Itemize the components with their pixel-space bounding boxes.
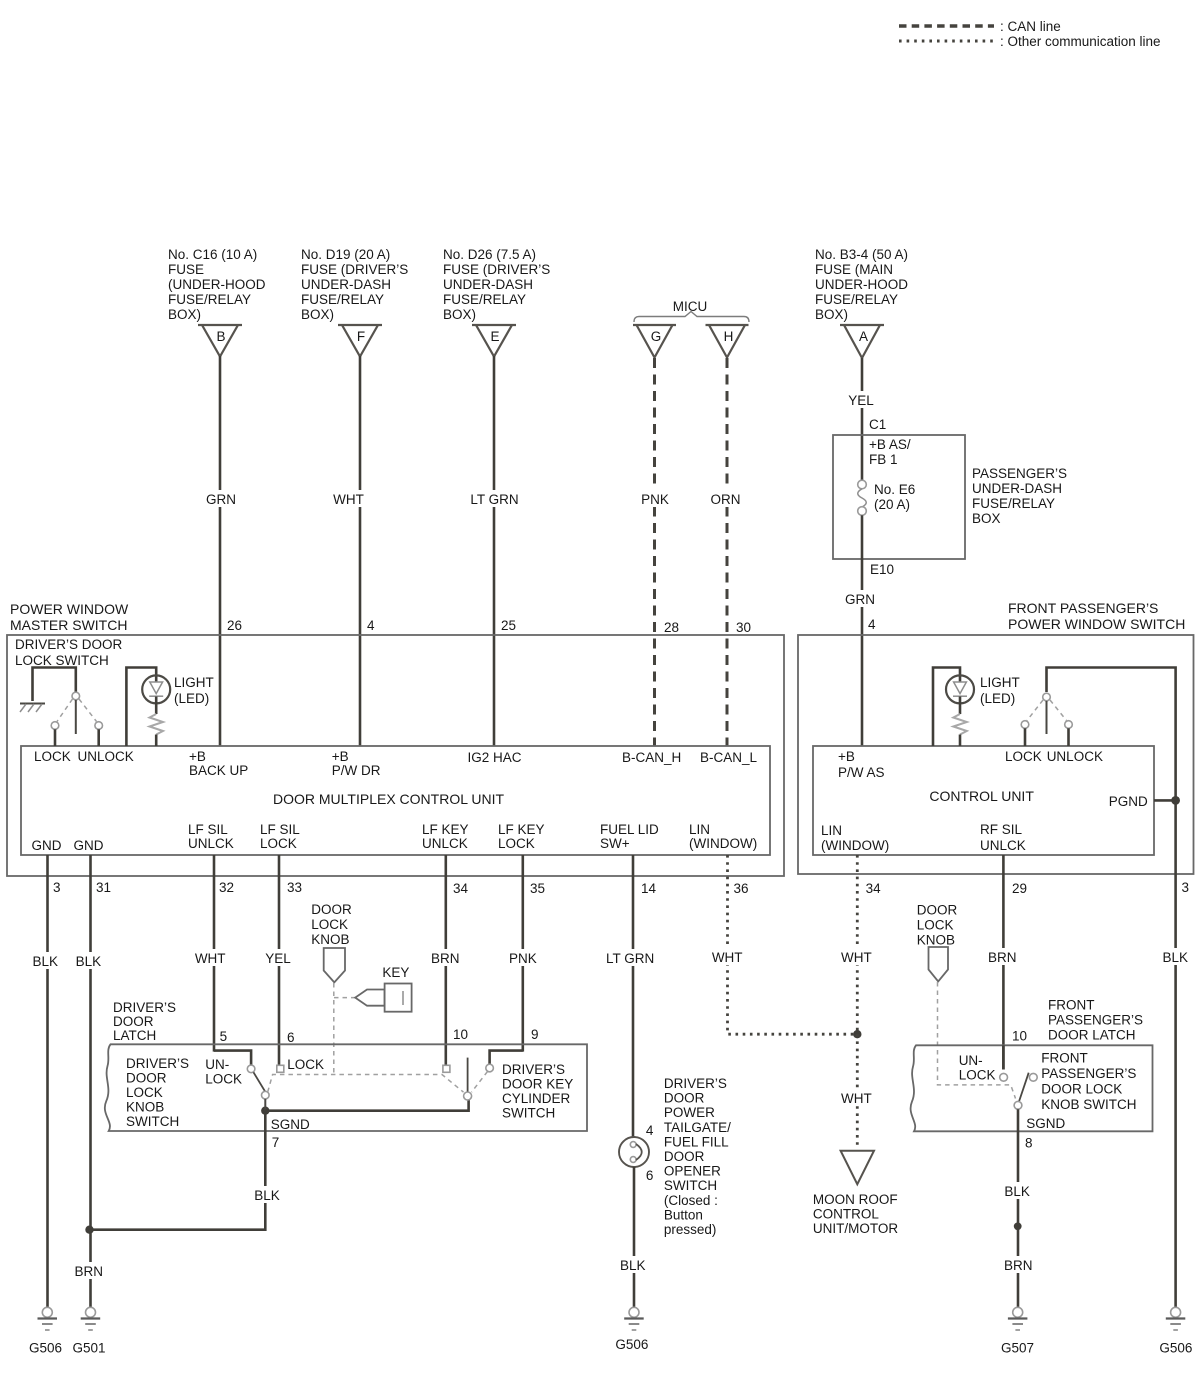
svg-text:KNOB: KNOB bbox=[126, 1100, 164, 1115]
svg-text:LF SIL: LF SIL bbox=[188, 822, 228, 837]
svg-text:FUSE/RELAY: FUSE/RELAY bbox=[443, 292, 526, 307]
contact key circle bbox=[486, 1064, 494, 1072]
svg-text:DOOR KEY: DOOR KEY bbox=[502, 1077, 573, 1092]
svg-text:PNK: PNK bbox=[641, 492, 669, 507]
wire GRN E10 to pin 4 bbox=[861, 559, 864, 746]
svg-text:LIGHT: LIGHT bbox=[980, 675, 1020, 690]
switch pole bbox=[75, 700, 77, 734]
front passenger's door lock knob switch label bbox=[1041, 1051, 1136, 1113]
svg-text:F: F bbox=[357, 329, 365, 344]
contact LOCK bbox=[51, 722, 59, 730]
svg-text:LIN: LIN bbox=[689, 822, 710, 837]
svg-text:Button: Button bbox=[664, 1207, 703, 1222]
svg-text:UNLCK: UNLCK bbox=[980, 838, 1026, 853]
label BLK SGND wire bbox=[250, 1186, 284, 1203]
svg-text:LIGHT: LIGHT bbox=[174, 675, 214, 690]
LIGHT (LED) label bbox=[174, 675, 214, 706]
junction PGND bbox=[1171, 796, 1180, 805]
connector E bbox=[472, 325, 516, 357]
svg-text:LF KEY: LF KEY bbox=[422, 822, 469, 837]
svg-text:LIN: LIN bbox=[821, 823, 842, 838]
svg-text:MASTER SWITCH: MASTER SWITCH bbox=[10, 617, 127, 633]
chassis ground bbox=[20, 704, 45, 713]
wire pivot to SGND dot bbox=[264, 1099, 266, 1111]
svg-text:WHT: WHT bbox=[841, 950, 872, 965]
svg-text:E: E bbox=[490, 329, 499, 344]
switch right wiring to PGND rail bbox=[1047, 668, 1176, 1309]
moon roof control unit/motor label bbox=[813, 1192, 898, 1236]
svg-text:DRIVER’S DOOR: DRIVER’S DOOR bbox=[15, 637, 123, 652]
svg-text:GRN: GRN bbox=[845, 592, 875, 607]
svg-text:DRIVER’S: DRIVER’S bbox=[113, 1000, 176, 1015]
switch throw right dashed bbox=[79, 699, 97, 722]
svg-text:30: 30 bbox=[736, 620, 751, 635]
front passenger's door latch box bbox=[911, 1045, 1153, 1131]
junction LIN dot bbox=[853, 1030, 861, 1038]
svg-text:UNDER-DASH: UNDER-DASH bbox=[301, 277, 391, 292]
connector B bbox=[198, 325, 242, 357]
svg-text:6: 6 bbox=[287, 1030, 295, 1045]
svg-text:32: 32 bbox=[219, 880, 234, 895]
svg-text:FUSE/RELAY: FUSE/RELAY bbox=[168, 292, 251, 307]
svg-text:9: 9 bbox=[531, 1027, 539, 1042]
door lock knob symbol left bbox=[324, 948, 345, 982]
svg-text:BOX): BOX) bbox=[168, 307, 201, 322]
svg-text:PASSENGER’S: PASSENGER’S bbox=[1048, 1013, 1143, 1028]
wire contact LOCK to unit right bbox=[1024, 728, 1027, 746]
svg-text:(20 A): (20 A) bbox=[874, 497, 910, 512]
svg-text:No. C16 (10 A): No. C16 (10 A) bbox=[168, 247, 257, 262]
MICU bracket bbox=[634, 312, 749, 323]
svg-text:: CAN line: : CAN line bbox=[1000, 19, 1061, 34]
wire LED to resistor bbox=[155, 697, 158, 715]
svg-text:4: 4 bbox=[367, 618, 375, 633]
connector A bbox=[840, 325, 884, 358]
door lock knob symbol right bbox=[929, 947, 949, 981]
svg-text:+B: +B bbox=[332, 749, 349, 764]
knob switch dashed throw bbox=[268, 1075, 464, 1093]
svg-text:LOCK: LOCK bbox=[205, 1072, 242, 1087]
svg-text:LT GRN: LT GRN bbox=[470, 492, 518, 507]
door lock knob label right bbox=[917, 903, 958, 948]
wire YEL fuse A to fuse box bbox=[861, 358, 864, 480]
label BRN G501 wire bbox=[72, 1262, 107, 1279]
svg-text:G506: G506 bbox=[615, 1337, 648, 1352]
wire B-CAN_H dashed G to pin 28 bbox=[653, 358, 656, 746]
pin LF KEY LOCK label bbox=[498, 822, 545, 851]
svg-text:LOCK: LOCK bbox=[311, 917, 348, 932]
svg-text:SGND: SGND bbox=[1026, 1116, 1065, 1131]
pin UN-LOCK label right latch bbox=[959, 1053, 996, 1083]
pin numbers below right box bbox=[866, 880, 1189, 896]
ground G501 bbox=[81, 1307, 101, 1330]
svg-text:34: 34 bbox=[453, 881, 469, 896]
label WHT moon roof bbox=[838, 1089, 875, 1106]
svg-text:3: 3 bbox=[1182, 880, 1190, 895]
svg-text:26: 26 bbox=[227, 618, 242, 633]
wire B-CAN_L dashed H to pin 30 bbox=[726, 358, 729, 746]
junction ground dot bbox=[85, 1226, 93, 1234]
svg-text:3: 3 bbox=[53, 880, 61, 895]
knob linkage dashed left bbox=[333, 983, 335, 1075]
wire dotted to moon roof bbox=[856, 1034, 859, 1148]
resistor R2 bbox=[953, 714, 967, 735]
svg-text:KNOB: KNOB bbox=[311, 932, 349, 947]
svg-text:+B AS/: +B AS/ bbox=[869, 437, 911, 452]
label BRN G507 wire bbox=[1000, 1256, 1036, 1273]
svg-text:25: 25 bbox=[501, 618, 516, 633]
resistor R1 bbox=[150, 714, 164, 735]
fuse D26 label bbox=[443, 247, 550, 322]
contact UNLOCK right bbox=[1065, 721, 1073, 729]
svg-text:BOX): BOX) bbox=[301, 307, 334, 322]
knob linkage dashed right bbox=[938, 982, 1016, 1099]
svg-text:FUSE: FUSE bbox=[168, 262, 204, 277]
svg-text:SWITCH: SWITCH bbox=[502, 1106, 555, 1121]
svg-text:OPENER: OPENER bbox=[664, 1164, 721, 1179]
svg-text:FUSE (DRIVER’S: FUSE (DRIVER’S bbox=[443, 262, 550, 277]
svg-text:FUSE/RELAY: FUSE/RELAY bbox=[972, 496, 1055, 511]
fuse B3-4 label bbox=[815, 247, 908, 322]
svg-text:(Closed :: (Closed : bbox=[664, 1193, 718, 1208]
driver's door power tailgate/fuel fill door opener switch label bbox=[664, 1076, 731, 1237]
svg-text:FUEL LID: FUEL LID bbox=[600, 822, 659, 837]
svg-text:BACK UP: BACK UP bbox=[189, 763, 248, 778]
svg-text:LOCK: LOCK bbox=[260, 836, 297, 851]
key symbol bbox=[334, 984, 412, 1012]
svg-text:G: G bbox=[651, 329, 662, 344]
svg-text:UNDER-DASH: UNDER-DASH bbox=[443, 277, 533, 292]
fuse C16 label bbox=[168, 247, 266, 322]
svg-text:KNOB: KNOB bbox=[917, 933, 955, 948]
connector H bbox=[706, 325, 749, 358]
wire RF SIL UNLCK 29 bbox=[1002, 855, 1005, 1070]
svg-text:: Other communication line: : Other communication line bbox=[1000, 34, 1161, 49]
connector G bbox=[633, 325, 676, 358]
svg-text:FUSE (MAIN: FUSE (MAIN bbox=[815, 262, 893, 277]
svg-text:PASSENGER’S: PASSENGER’S bbox=[972, 466, 1067, 481]
label BLK wire 3 bbox=[30, 952, 64, 969]
wire GND 3 to ground bbox=[46, 855, 49, 1307]
svg-text:DRIVER’S: DRIVER’S bbox=[502, 1062, 565, 1077]
knob switch blade bbox=[254, 1072, 266, 1092]
label WHT wire 34 right bbox=[838, 948, 875, 965]
svg-text:G506: G506 bbox=[1159, 1341, 1192, 1356]
svg-text:YEL: YEL bbox=[265, 951, 291, 966]
ground G506 middle bbox=[624, 1307, 644, 1330]
wire LT GRN fuse E to pin 25 bbox=[493, 356, 496, 746]
svg-text:DOOR: DOOR bbox=[126, 1071, 167, 1086]
LED feed wire right bbox=[933, 668, 960, 747]
fuel lid opener switch SW1 bbox=[619, 1137, 649, 1167]
svg-text:P/W AS: P/W AS bbox=[838, 765, 885, 780]
svg-text:WHT: WHT bbox=[712, 950, 743, 965]
svg-text:FUSE/RELAY: FUSE/RELAY bbox=[301, 292, 384, 307]
label ORN wire H bbox=[708, 490, 745, 507]
svg-text:UNLCK: UNLCK bbox=[188, 836, 234, 851]
label PNK wire 35 bbox=[505, 949, 541, 966]
svg-text:LOCK: LOCK bbox=[126, 1085, 163, 1100]
svg-text:No. D19 (20 A): No. D19 (20 A) bbox=[301, 247, 390, 262]
svg-text:(LED): (LED) bbox=[174, 691, 209, 706]
wire 35 jog to contact bbox=[490, 1051, 523, 1064]
contact LOCK square latch bbox=[277, 1065, 284, 1072]
wire LED to resistor right bbox=[959, 697, 962, 715]
passenger's under-dash fuse/relay box label bbox=[972, 466, 1067, 526]
svg-text:10: 10 bbox=[1012, 1029, 1027, 1044]
svg-text:B: B bbox=[216, 329, 225, 344]
svg-text:4: 4 bbox=[646, 1123, 654, 1138]
driver's door lock knob switch label bbox=[126, 1056, 189, 1129]
wire contact UNLOCK to unit right bbox=[1067, 728, 1070, 746]
svg-text:4: 4 bbox=[868, 617, 876, 632]
label BRN wire 34 bbox=[428, 949, 464, 966]
front passenger's door latch label bbox=[1048, 998, 1143, 1043]
pin +B AS/FB 1 bbox=[869, 437, 911, 467]
control unit inner box bbox=[813, 746, 1154, 855]
svg-text:ORN: ORN bbox=[711, 492, 741, 507]
label WHT wire 32 bbox=[192, 949, 229, 966]
label WHT wire 36 bbox=[709, 948, 746, 965]
key cylinder dashed throw right bbox=[472, 1072, 488, 1093]
ground G507 bbox=[1008, 1307, 1028, 1330]
svg-text:UNLOCK: UNLOCK bbox=[1047, 749, 1103, 764]
driver's door latch box bbox=[105, 1044, 587, 1131]
svg-text:No. E6: No. E6 bbox=[874, 482, 915, 497]
svg-text:29: 29 bbox=[1012, 881, 1027, 896]
svg-text:8: 8 bbox=[1025, 1136, 1033, 1151]
door multiplex control unit inner box bbox=[21, 746, 770, 855]
contact key square bbox=[443, 1065, 450, 1072]
label BLK wire 3 right bbox=[1158, 948, 1192, 965]
wire GRN fuse B to pin 26 bbox=[219, 356, 222, 746]
power window master switch label bbox=[10, 601, 129, 633]
svg-text:PASSENGER’S: PASSENGER’S bbox=[1041, 1066, 1136, 1081]
pin LIN (WINDOW) label bbox=[689, 822, 757, 851]
svg-text:DOOR LOCK: DOOR LOCK bbox=[1041, 1082, 1122, 1097]
junction SGND dot bbox=[261, 1107, 269, 1115]
switch throw left dashed bbox=[57, 699, 73, 722]
svg-text:DRIVER’S: DRIVER’S bbox=[126, 1056, 189, 1071]
pin LF SIL LOCK label bbox=[260, 822, 300, 851]
pin +B P/W AS label bbox=[838, 749, 885, 780]
svg-text:(WINDOW): (WINDOW) bbox=[689, 836, 757, 851]
legend CAN line sample bbox=[899, 19, 1061, 34]
svg-text:KEY: KEY bbox=[382, 965, 409, 980]
wire SGND 7 down and left bbox=[90, 1111, 266, 1230]
svg-text:LF KEY: LF KEY bbox=[498, 822, 545, 837]
svg-text:33: 33 bbox=[287, 880, 302, 895]
svg-text:CONTROL: CONTROL bbox=[813, 1207, 879, 1222]
svg-text:34: 34 bbox=[866, 881, 882, 896]
svg-text:UNDER-HOOD: UNDER-HOOD bbox=[815, 277, 908, 292]
wire fuse E6 to box bottom bbox=[861, 515, 864, 559]
passenger's under-dash fuse/relay box bbox=[833, 435, 965, 559]
svg-text:+B: +B bbox=[838, 749, 855, 764]
switch pivot bbox=[72, 692, 80, 700]
svg-text:FRONT: FRONT bbox=[1041, 1051, 1088, 1066]
door lock knob label left bbox=[311, 902, 352, 947]
svg-text:28: 28 bbox=[664, 620, 679, 635]
label LT GRN wire 14 bbox=[603, 949, 658, 966]
svg-text:pressed): pressed) bbox=[664, 1222, 717, 1237]
front passenger's power window switch label bbox=[1008, 600, 1185, 632]
wire LF KEY LOCK 35 bbox=[521, 855, 524, 1052]
svg-text:BLK: BLK bbox=[254, 1188, 280, 1203]
fuse D19 label bbox=[301, 247, 408, 322]
wire LF SIL LOCK 33 bbox=[278, 855, 281, 1066]
label BLK wire 31 bbox=[73, 952, 107, 969]
svg-text:14: 14 bbox=[641, 881, 657, 896]
label WHT wire F bbox=[330, 490, 367, 507]
svg-text:5: 5 bbox=[220, 1029, 228, 1044]
svg-text:BLK: BLK bbox=[1004, 1184, 1030, 1199]
label LT GRN wire E bbox=[468, 490, 522, 507]
svg-text:(LED): (LED) bbox=[980, 691, 1015, 706]
svg-text:31: 31 bbox=[96, 880, 111, 895]
svg-text:TAILGATE/: TAILGATE/ bbox=[664, 1120, 731, 1135]
svg-text:LATCH: LATCH bbox=[113, 1028, 156, 1043]
svg-text:BLK: BLK bbox=[620, 1258, 646, 1273]
wire WHT fuse F to pin 4 bbox=[359, 356, 362, 746]
svg-text:LF SIL: LF SIL bbox=[260, 822, 300, 837]
svg-text:LOCK SWITCH: LOCK SWITCH bbox=[15, 653, 109, 668]
wire LF SIL UNLCK 32 bbox=[213, 855, 216, 1052]
switch pivot right bbox=[1043, 693, 1051, 701]
svg-text:BRN: BRN bbox=[431, 951, 460, 966]
contact UNLOCK bbox=[95, 722, 103, 730]
legend Other communication line sample bbox=[899, 34, 1161, 49]
svg-text:DOOR LATCH: DOOR LATCH bbox=[1048, 1028, 1136, 1043]
svg-text:BLK: BLK bbox=[76, 954, 102, 969]
svg-text:IG2 HAC: IG2 HAC bbox=[468, 750, 522, 765]
wire resistor to unit bbox=[155, 735, 158, 747]
contact circle right right-latch bbox=[1029, 1073, 1037, 1081]
knob switch pivot right bbox=[1014, 1101, 1022, 1109]
wire fuel lid switch to ground bbox=[633, 1167, 636, 1308]
svg-text:DOOR: DOOR bbox=[311, 902, 352, 917]
label BLK fuel lid wire bbox=[616, 1256, 650, 1273]
svg-text:GRN: GRN bbox=[206, 492, 236, 507]
ground G506 left bbox=[38, 1307, 58, 1330]
svg-text:YEL: YEL bbox=[848, 393, 874, 408]
svg-text:SWITCH: SWITCH bbox=[126, 1114, 179, 1129]
svg-text:DOOR: DOOR bbox=[113, 1014, 154, 1029]
svg-text:UNIT/MOTOR: UNIT/MOTOR bbox=[813, 1221, 898, 1236]
knob switch blade right bbox=[1019, 1073, 1029, 1102]
svg-text:6: 6 bbox=[646, 1168, 654, 1183]
svg-text:POWER: POWER bbox=[664, 1105, 715, 1120]
svg-text:WHT: WHT bbox=[333, 492, 364, 507]
wire 32 jog to contact bbox=[214, 1051, 251, 1065]
svg-text:WHT: WHT bbox=[195, 951, 226, 966]
svg-text:CONTROL UNIT: CONTROL UNIT bbox=[929, 788, 1034, 804]
label BLK G507 wire bbox=[1000, 1182, 1034, 1199]
svg-text:LOCK: LOCK bbox=[34, 749, 71, 764]
svg-text:B-CAN_L: B-CAN_L bbox=[700, 750, 758, 765]
svg-text:35: 35 bbox=[530, 881, 545, 896]
svg-text:A: A bbox=[859, 329, 868, 344]
svg-text:FB 1: FB 1 bbox=[869, 452, 898, 467]
pin LF SIL UNLCK label bbox=[188, 822, 234, 851]
svg-text:UNLOCK: UNLOCK bbox=[78, 749, 134, 764]
ground G506 right bbox=[1166, 1307, 1186, 1330]
svg-text:BRN: BRN bbox=[75, 1264, 104, 1279]
pin FUEL LID SW+ label bbox=[600, 822, 659, 851]
svg-text:G501: G501 bbox=[73, 1341, 106, 1356]
connector F bbox=[338, 325, 382, 357]
svg-text:G507: G507 bbox=[1001, 1341, 1034, 1356]
pin LIN (WINDOW) label right bbox=[821, 823, 889, 853]
svg-text:(UNDER-HOOD: (UNDER-HOOD bbox=[168, 277, 266, 292]
pin numbers row below master switch bbox=[53, 880, 749, 896]
driver's door lock switch label bbox=[15, 637, 123, 668]
wire LIN 34 dotted right bbox=[856, 855, 859, 1034]
svg-text:POWER WINDOW: POWER WINDOW bbox=[10, 601, 129, 617]
svg-text:UNDER-DASH: UNDER-DASH bbox=[972, 481, 1062, 496]
knob switch pivot bbox=[262, 1091, 270, 1099]
key cylinder pivot bbox=[464, 1092, 472, 1100]
svg-text:FUSE/RELAY: FUSE/RELAY bbox=[815, 292, 898, 307]
svg-text:SGND: SGND bbox=[271, 1117, 310, 1132]
svg-text:(WINDOW): (WINDOW) bbox=[821, 838, 889, 853]
wire resistor to unit right bbox=[959, 735, 962, 747]
wire GND 31 to ground bbox=[89, 855, 92, 1307]
svg-text:LT GRN: LT GRN bbox=[606, 951, 654, 966]
contact circle left right-latch bbox=[1000, 1073, 1008, 1081]
svg-text:DOOR MULTIPLEX CONTROL UNIT: DOOR MULTIPLEX CONTROL UNIT bbox=[273, 791, 504, 807]
svg-text:BLK: BLK bbox=[1163, 950, 1189, 965]
svg-text:DOOR: DOOR bbox=[664, 1149, 705, 1164]
svg-text:10: 10 bbox=[453, 1027, 468, 1042]
label BRN wire 29 bbox=[984, 948, 1020, 965]
label YEL wire 33 bbox=[262, 949, 295, 966]
svg-text:WHT: WHT bbox=[841, 1091, 872, 1106]
svg-text:H: H bbox=[724, 329, 734, 344]
svg-text:CYLINDER: CYLINDER bbox=[502, 1091, 571, 1106]
driver's door latch label bbox=[113, 1000, 176, 1043]
svg-text:BOX): BOX) bbox=[815, 307, 848, 322]
svg-text:LOCK: LOCK bbox=[917, 918, 954, 933]
svg-text:BRN: BRN bbox=[1004, 1258, 1033, 1273]
svg-text:FRONT PASSENGER’S: FRONT PASSENGER’S bbox=[1008, 600, 1158, 616]
junction dot G507 wire bbox=[1014, 1222, 1022, 1230]
switch pole right bbox=[1046, 701, 1048, 734]
label YEL wire A bbox=[845, 391, 878, 408]
wire FUEL LID 14 bbox=[632, 855, 635, 1138]
svg-text:BLK: BLK bbox=[33, 954, 59, 969]
svg-text:UN-: UN- bbox=[205, 1057, 229, 1072]
svg-text:C1: C1 bbox=[869, 417, 886, 432]
wire PGND to rail bbox=[1154, 799, 1176, 802]
key cylinder pole bbox=[467, 1058, 469, 1092]
driver's door key cylinder switch label bbox=[502, 1062, 573, 1121]
switch throw left dashed right bbox=[1027, 700, 1043, 721]
svg-text:DOOR: DOOR bbox=[917, 903, 958, 918]
svg-text:No. B3-4 (50 A): No. B3-4 (50 A) bbox=[815, 247, 908, 262]
label GRN wire B bbox=[203, 490, 239, 507]
svg-text:+B: +B bbox=[189, 749, 206, 764]
svg-text:DRIVER’S: DRIVER’S bbox=[664, 1076, 727, 1091]
wire LF KEY UNLCK 34 bbox=[444, 855, 447, 1066]
svg-text:MOON ROOF: MOON ROOF bbox=[813, 1192, 898, 1207]
svg-text:SW+: SW+ bbox=[600, 836, 630, 851]
fuse E6 value label bbox=[874, 482, 915, 512]
svg-text:LOCK: LOCK bbox=[959, 1068, 996, 1083]
pin +B BACK UP label bbox=[189, 749, 248, 778]
moon roof triangle bbox=[841, 1151, 874, 1185]
fuse No. E6 (20 A) symbol bbox=[858, 480, 867, 515]
